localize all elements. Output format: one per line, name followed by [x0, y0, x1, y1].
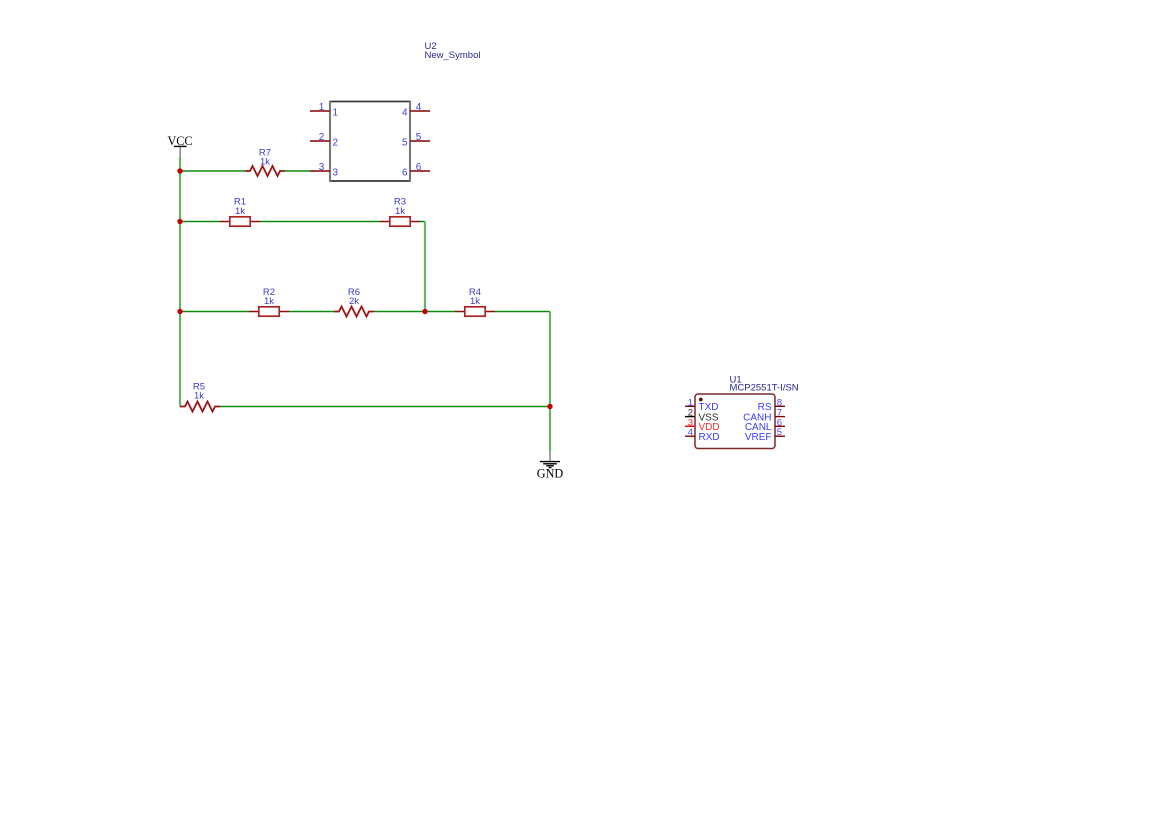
svg-text:2: 2 — [319, 132, 325, 143]
U2 pin 6 — [402, 162, 430, 178]
svg-text:GND: GND — [537, 467, 564, 481]
svg-text:4: 4 — [688, 427, 693, 438]
svg-text:RXD: RXD — [699, 432, 720, 443]
svg-text:5: 5 — [416, 132, 422, 143]
svg-text:VREF: VREF — [745, 432, 772, 443]
wire — [180, 311, 550, 313]
power symbol VCC — [167, 134, 192, 158]
junction node (R3/R6 net) — [422, 309, 427, 314]
svg-text:5: 5 — [777, 427, 782, 438]
wire — [424, 222, 426, 312]
U2 pin 1 — [310, 102, 339, 118]
svg-text:1: 1 — [319, 102, 325, 113]
svg-text:1k: 1k — [264, 296, 274, 307]
U1 pin 5 VREF — [745, 427, 785, 443]
wire — [180, 221, 425, 223]
wire — [220, 406, 550, 408]
U1 pin 6 CANL — [745, 417, 785, 433]
wire — [180, 170, 310, 172]
svg-text:1: 1 — [333, 107, 339, 118]
junction node (R1 row) — [177, 219, 182, 224]
U1 pin 1 TXD — [685, 397, 719, 413]
svg-text:5: 5 — [402, 137, 408, 148]
resistor R2 1k — [249, 287, 289, 316]
svg-text:3: 3 — [319, 162, 325, 173]
resistor R4 1k — [455, 287, 495, 316]
junction node (VCC / R7 row) — [177, 168, 182, 173]
U2 pin 4 — [402, 102, 430, 118]
ground symbol GND — [537, 451, 564, 481]
U1 pin 4 RXD — [685, 427, 720, 443]
U2 pin 2 — [310, 132, 339, 148]
U1 pin 2 VSS — [685, 408, 719, 424]
svg-text:6: 6 — [402, 167, 408, 178]
resistor R5 1k — [180, 381, 220, 411]
svg-text:1k: 1k — [395, 206, 405, 217]
U2 pin 5 — [402, 132, 430, 148]
resistor R1 1k — [220, 196, 260, 226]
svg-text:New_Symbol: New_Symbol — [425, 50, 481, 61]
resistor R7 1k — [245, 147, 285, 176]
U1 pin 3 VDD — [685, 417, 720, 433]
U1 pin 7 CANH — [743, 408, 785, 424]
U1 pin 8 RS — [758, 397, 785, 413]
svg-text:4: 4 — [416, 102, 422, 113]
svg-text:3: 3 — [333, 167, 339, 178]
symbol U2 New_Symbol body — [329, 41, 480, 182]
svg-text:2k: 2k — [349, 296, 359, 307]
IC U1 MCP2551T-I/SN body — [695, 375, 799, 449]
wire — [549, 407, 551, 452]
svg-text:2: 2 — [333, 137, 339, 148]
svg-text:1k: 1k — [194, 390, 204, 401]
wire — [179, 158, 181, 407]
svg-text:MCP2551T-I/SN: MCP2551T-I/SN — [730, 383, 799, 394]
U2 pin 3 — [310, 162, 339, 178]
junction node (GND net) — [547, 404, 552, 409]
wire — [549, 312, 551, 407]
resistor R6 2k — [334, 287, 374, 317]
svg-text:1k: 1k — [235, 206, 245, 217]
svg-text:6: 6 — [416, 162, 422, 173]
svg-text:1k: 1k — [470, 296, 480, 307]
junction node (R2 row) — [177, 309, 182, 314]
svg-text:1k: 1k — [260, 157, 270, 168]
resistor R3 1k — [380, 196, 420, 226]
svg-text:4: 4 — [402, 107, 408, 118]
